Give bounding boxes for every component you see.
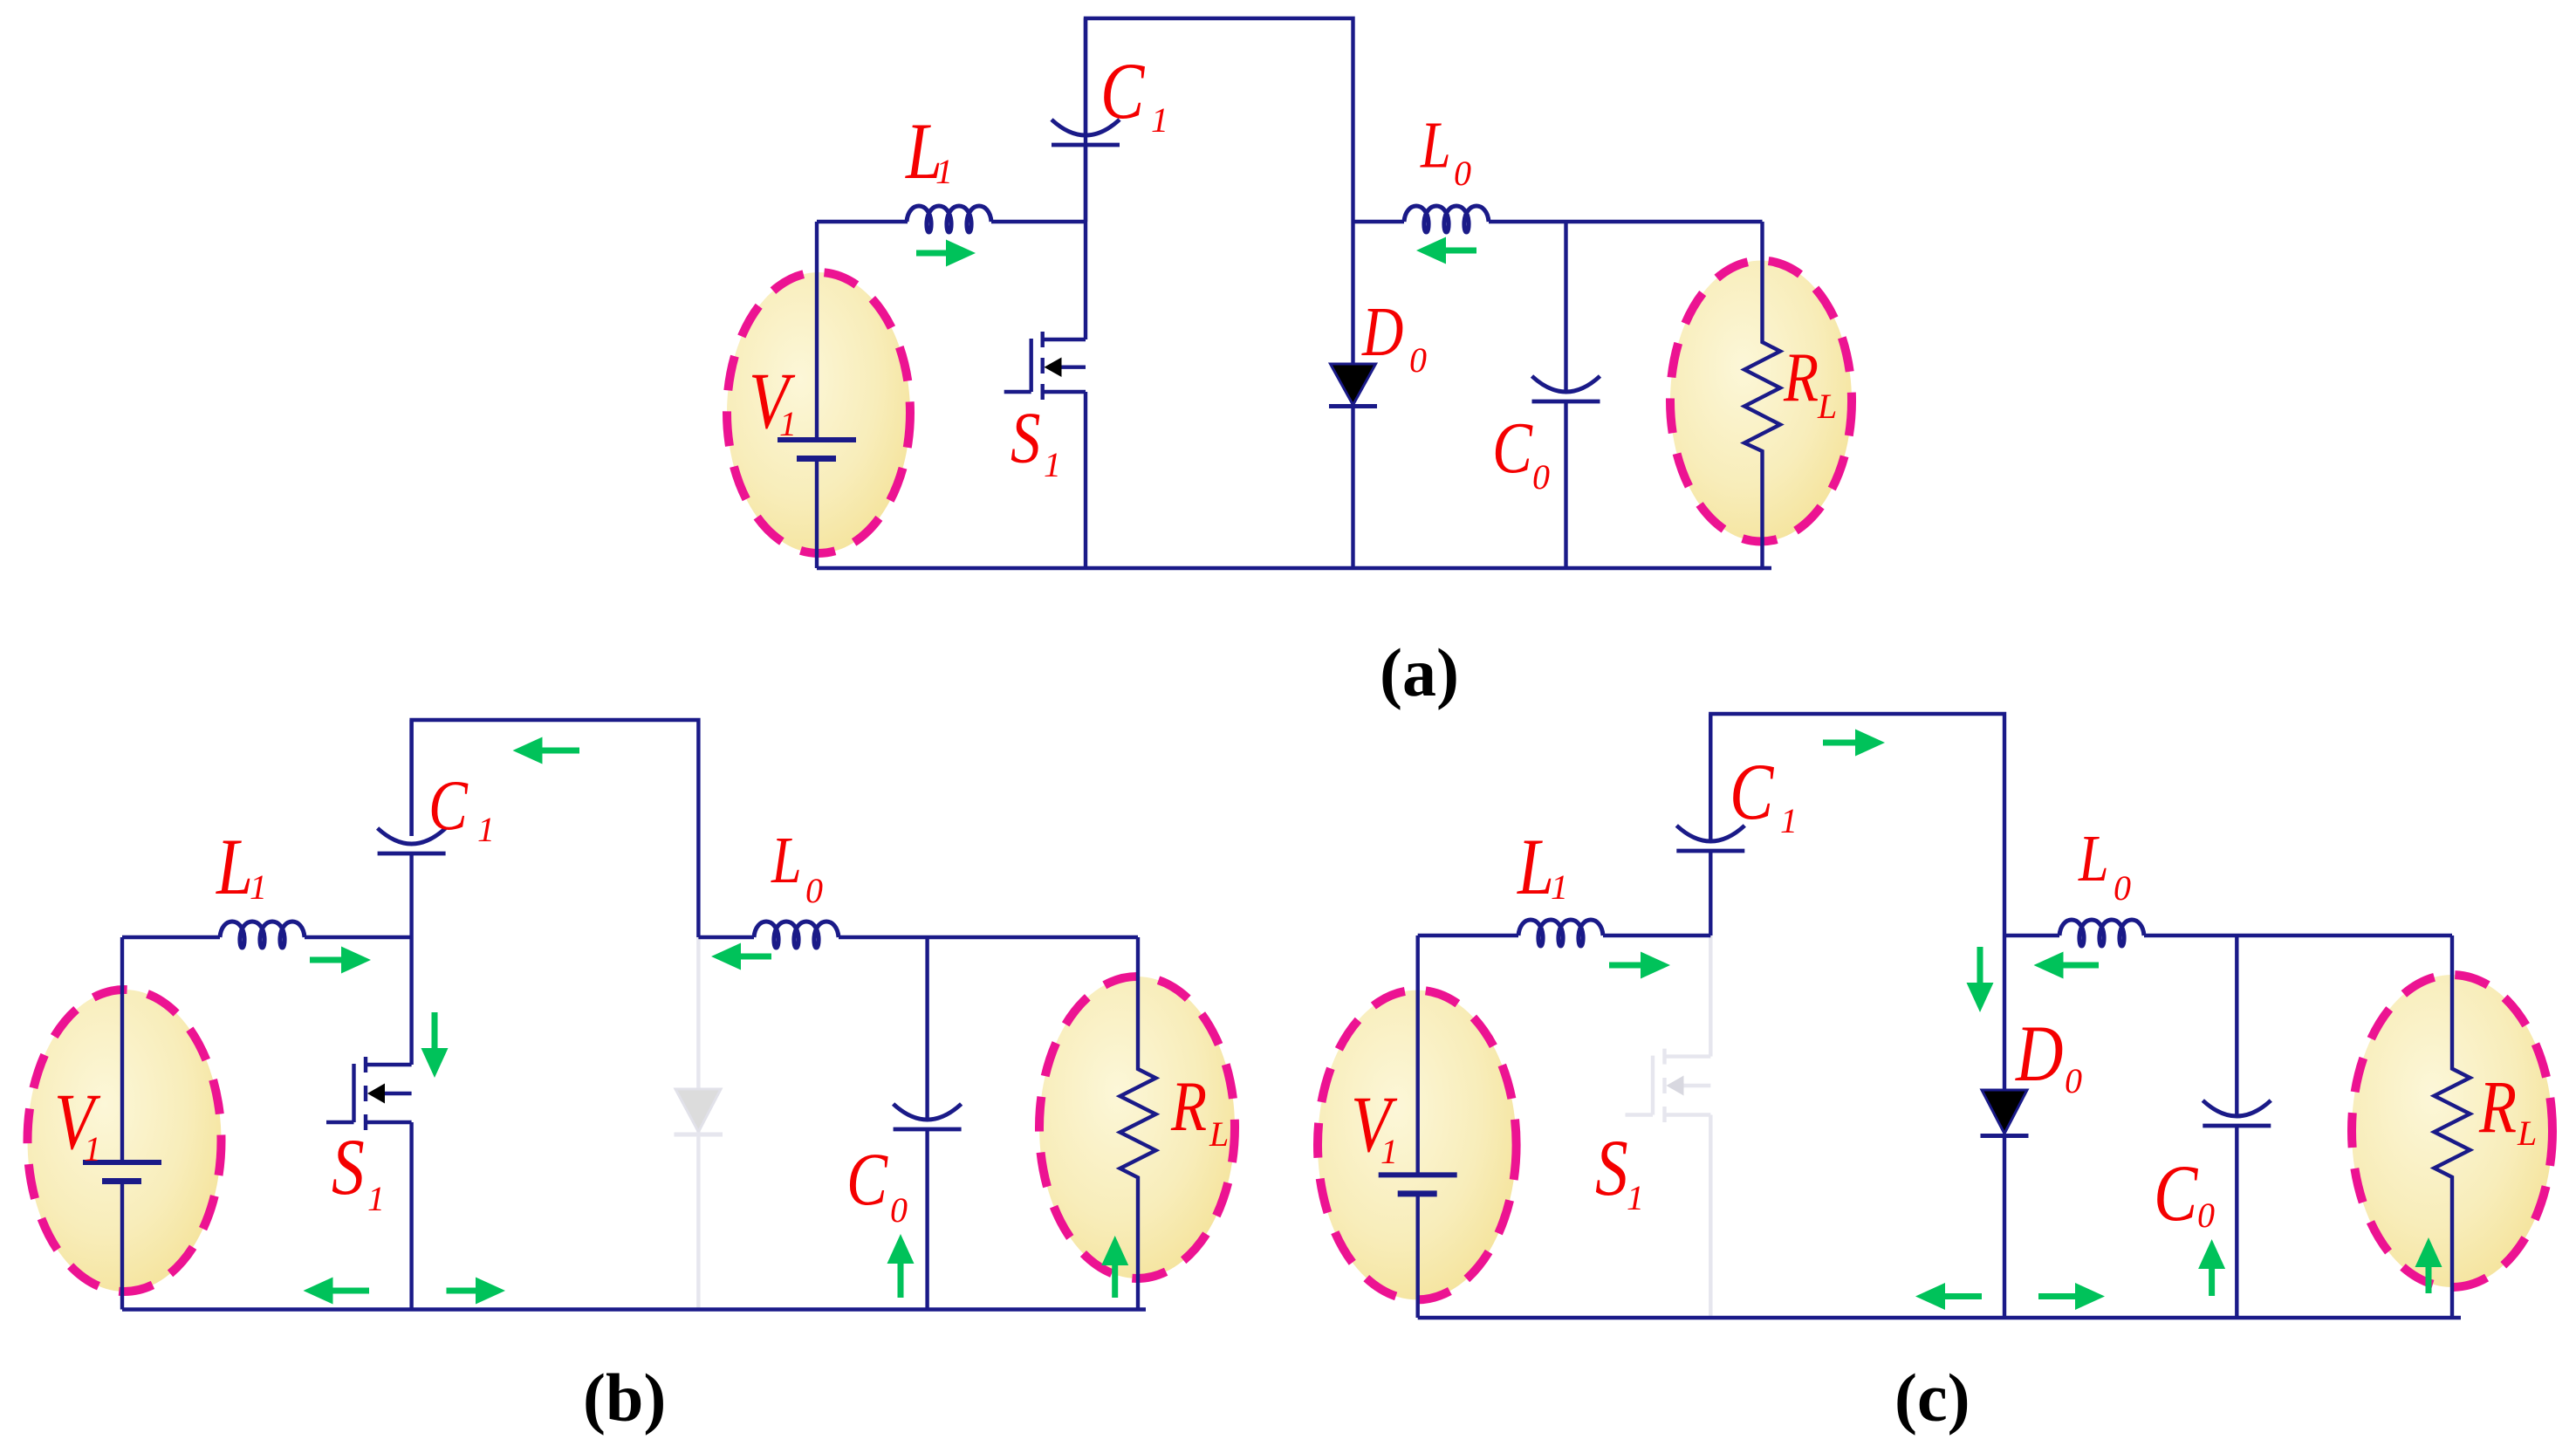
current arrow bottom right (b) (447, 1288, 479, 1294)
capacitor C1 (b) (409, 720, 413, 836)
svg-text:C: C (428, 766, 469, 846)
current arrow iL1 (a) (916, 250, 949, 257)
current arrow bottom right (c) (2038, 1293, 2078, 1299)
current arrow RL up (c) (2426, 1264, 2432, 1293)
svg-text:(b): (b) (583, 1360, 666, 1436)
current arrow S1 branch down (b) (432, 1012, 438, 1051)
inactive mosfet S1 (c) (1626, 1049, 1711, 1122)
wire output rail c (2004, 934, 2452, 937)
RL load ellipse highlight (c) (2352, 975, 2552, 1287)
mosfet S1 (a) (1004, 332, 1086, 400)
V1 source ellipse highlight (727, 272, 910, 553)
svg-text:D: D (1361, 293, 1403, 371)
svg-text:1: 1 (1151, 100, 1168, 140)
svg-text:L: L (1517, 823, 1554, 912)
wire output rail a (1353, 220, 1763, 223)
svg-text:1: 1 (1551, 867, 1568, 907)
current arrow iL0 (a) (1443, 248, 1476, 254)
svg-text:0: 0 (2065, 1061, 2082, 1100)
inactive diode D0 branch wire (b) (696, 937, 700, 1309)
wire bottom rail a (817, 566, 1771, 570)
current arrow top loop (b) (540, 748, 580, 754)
inactive diode D0 (b) (675, 1089, 721, 1132)
inductor L1 (c) (1518, 920, 1603, 946)
svg-text:1: 1 (1044, 445, 1061, 484)
current arrow iL1 (b) (310, 957, 344, 963)
svg-text:R: R (2478, 1066, 2517, 1149)
inductor L1 (b) (220, 922, 305, 948)
diode D0 (c) (1982, 1090, 2027, 1134)
svg-text:0: 0 (890, 1190, 908, 1230)
wire input rail b (122, 935, 412, 939)
capacitor C1 (a) (1084, 18, 1087, 136)
V1 source ellipse highlight (c) (1318, 990, 1517, 1300)
current arrow iL1 (c) (1609, 963, 1643, 969)
current arrow C0 up (c) (2209, 1266, 2215, 1296)
inductor L1 (a) (907, 206, 991, 232)
capacitor C0 (b) (925, 937, 928, 1120)
current arrow bottom left (c) (1942, 1293, 1982, 1299)
current arrow RL up (b) (1112, 1263, 1118, 1298)
svg-text:1: 1 (477, 810, 495, 849)
svg-text:1: 1 (1627, 1178, 1644, 1217)
svg-text:L: L (2517, 1114, 2537, 1153)
wire top box a (1086, 18, 1353, 222)
svg-text:(c): (c) (1894, 1360, 1970, 1436)
svg-text:S: S (1595, 1124, 1628, 1213)
wire D0 branch (c) (2003, 935, 2006, 1318)
svg-text:1: 1 (935, 152, 953, 191)
svg-text:1: 1 (250, 867, 267, 907)
inactive mosfet S1 branch wire (c) (1709, 935, 1712, 1318)
svg-text:R: R (1170, 1067, 1207, 1147)
svg-text:D: D (2015, 1010, 2063, 1099)
svg-text:C: C (1492, 408, 1533, 489)
current arrow bottom left (b) (331, 1288, 370, 1294)
inductor L0 (a) (1404, 206, 1489, 232)
svg-text:C: C (2154, 1149, 2198, 1238)
svg-text:C: C (846, 1139, 888, 1222)
capacitor C0 (c) (2235, 935, 2238, 1117)
svg-text:(a): (a) (1380, 634, 1459, 710)
battery V1 (a) (778, 437, 856, 442)
svg-text:0: 0 (2197, 1196, 2215, 1235)
svg-text:0: 0 (2114, 868, 2131, 908)
svg-text:L: L (1209, 1114, 1229, 1154)
current arrow iL0 (b) (738, 954, 771, 960)
RL load ellipse highlight (1670, 261, 1852, 542)
svg-text:L: L (1817, 387, 1837, 426)
capacitor C0 (a) (1564, 222, 1567, 393)
inductor L0 (c) (2059, 920, 2144, 946)
wire output rail b (698, 935, 1138, 939)
wire top box c (1710, 714, 2004, 935)
svg-text:C: C (1730, 748, 1774, 837)
svg-text:1: 1 (367, 1179, 385, 1218)
svg-text:1: 1 (1780, 801, 1798, 840)
svg-text:0: 0 (805, 871, 823, 910)
wire bottom rail c (1418, 1316, 2461, 1319)
wire S1 branch (b) (409, 937, 413, 1310)
RL load ellipse highlight (b) (1039, 977, 1235, 1278)
wire V1 branch (c) (1415, 935, 1419, 1318)
svg-text:0: 0 (1532, 457, 1550, 497)
wire top box b (412, 720, 699, 937)
svg-text:0: 0 (1454, 154, 1471, 193)
resistor RL (a) (1744, 222, 1780, 568)
svg-text:1: 1 (84, 1129, 101, 1168)
current arrow iL0 (c) (2061, 963, 2100, 969)
inductor L0 (b) (754, 922, 839, 948)
diode D0 (a) (1331, 364, 1376, 405)
battery V1 (b) (83, 1160, 161, 1165)
wire bottom rail b (122, 1307, 1146, 1311)
resistor RL (c) (2435, 935, 2470, 1318)
svg-text:L: L (771, 824, 802, 897)
svg-text:1: 1 (1380, 1132, 1398, 1171)
svg-text:R: R (1783, 339, 1819, 416)
current arrow C0 up (b) (898, 1261, 904, 1298)
svg-text:L: L (2078, 822, 2109, 895)
svg-text:1: 1 (779, 404, 797, 443)
wire input rail c (1418, 934, 1711, 937)
svg-text:0: 0 (1409, 340, 1427, 380)
current arrow D0 branch down (c) (1977, 947, 1983, 985)
wire V1 branch (a) (815, 222, 819, 568)
current arrow top loop (c) (1823, 740, 1858, 746)
svg-text:L: L (1420, 109, 1451, 182)
battery V1 (c) (1379, 1172, 1457, 1177)
V1 source ellipse highlight (b) (28, 990, 222, 1292)
svg-text:L: L (216, 823, 253, 912)
wire D0 branch (a) (1351, 222, 1354, 568)
svg-text:S: S (1011, 397, 1040, 478)
capacitor C1 (c) (1709, 714, 1712, 842)
wire S1 branch (a) (1084, 222, 1087, 568)
mosfet S1 (b) (326, 1057, 412, 1130)
svg-text:S: S (332, 1123, 365, 1212)
wire input rail a (817, 220, 1086, 223)
svg-text:C: C (1100, 47, 1145, 136)
wire V1 branch (b) (120, 937, 124, 1310)
resistor RL (b) (1120, 937, 1156, 1310)
